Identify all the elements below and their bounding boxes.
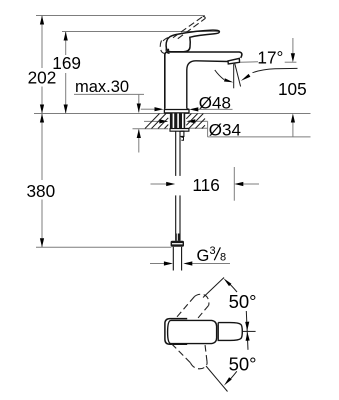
svg-text:8: 8 (220, 251, 226, 263)
svg-text:max.30: max.30 (75, 78, 129, 96)
svg-text:17°: 17° (257, 47, 283, 67)
svg-text:116: 116 (192, 175, 219, 195)
svg-text:380: 380 (27, 181, 56, 201)
svg-text:Ø48: Ø48 (199, 93, 231, 112)
svg-text:50°: 50° (229, 353, 257, 374)
svg-text:169: 169 (52, 53, 81, 73)
svg-text:105: 105 (278, 79, 307, 99)
svg-text:Ø34: Ø34 (209, 121, 241, 140)
svg-text:50°: 50° (229, 291, 257, 312)
svg-text:3: 3 (210, 245, 216, 257)
svg-text:G: G (197, 247, 210, 265)
